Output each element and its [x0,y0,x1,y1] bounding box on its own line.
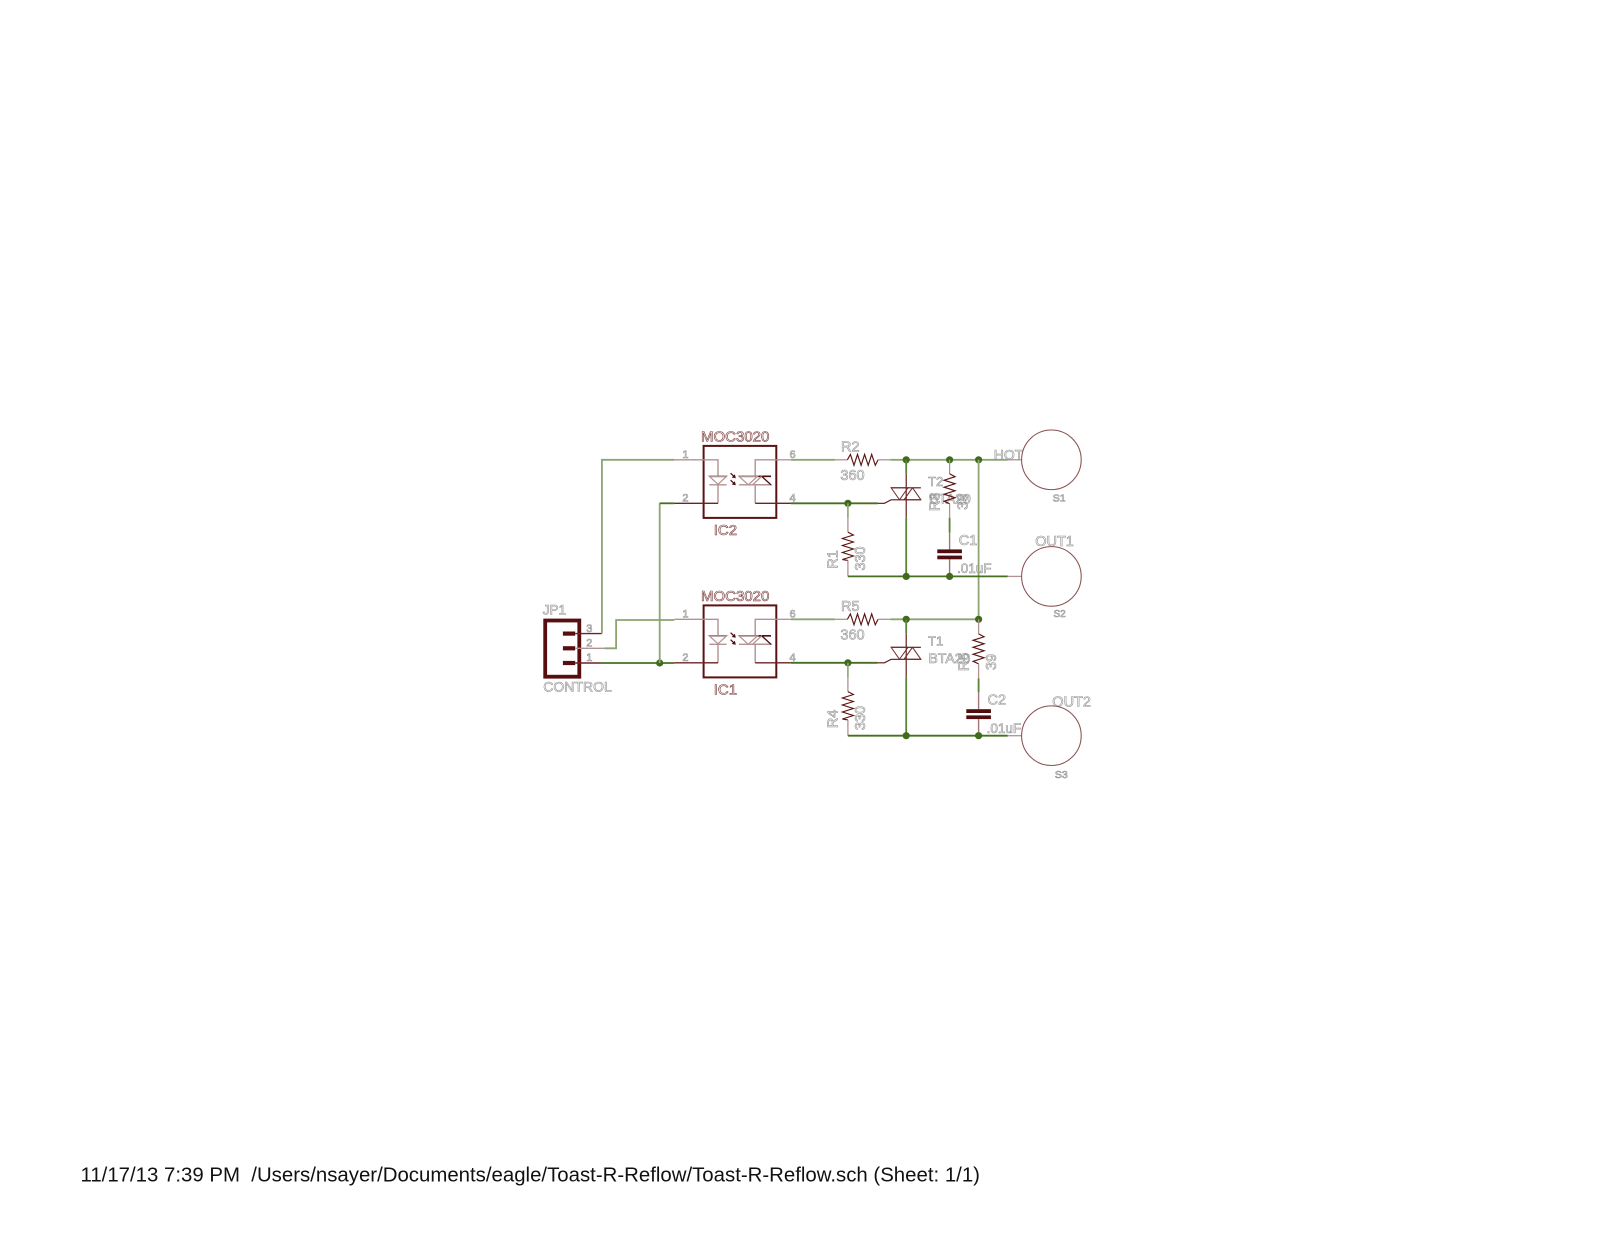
circle S1 [1022,430,1082,490]
junction node R5 net at T1 [903,616,910,623]
IC1 pin 4 lead [776,662,791,664]
svg-text:S3: S3 [1055,769,1068,781]
IC1 pin 6 lead [776,618,791,620]
wire IC1 pin4 net [791,662,878,664]
junction node HOT at vertical [975,456,982,463]
wire OUT1 net [848,575,1008,577]
IC1 pin 1 lead [674,618,703,620]
svg-text:JP1: JP1 [543,602,566,617]
resistor R2 [835,454,890,465]
svg-text:C2: C2 [988,693,1007,709]
junction node pin4 net at R1 [844,500,851,507]
op-amp IC1 optocoupler MOC3020 box [704,605,777,677]
resistor R4 vertical [842,663,853,736]
wire R6 to C2 [978,678,980,692]
JP1 pin 1 lead [575,662,602,664]
svg-text:T1: T1 [928,634,943,649]
wire IC1 pin6 to R5 [791,618,835,620]
junction node OUT1 at C1 [946,573,953,580]
resistor R1 vertical [842,503,853,576]
junction node HOT at R3 [946,456,953,463]
svg-text:MOC3020: MOC3020 [701,429,769,446]
svg-text:MOC3020: MOC3020 [701,588,769,605]
svg-text:360: 360 [840,468,864,484]
svg-text:3: 3 [586,623,592,635]
svg-text:IC2: IC2 [714,522,737,539]
svg-text:330: 330 [853,546,869,570]
IC2 pin 1 lead [674,459,703,461]
svg-text:T2: T2 [928,474,943,489]
wire R5 net horizontal [890,618,978,620]
circle S2 [1022,547,1082,607]
svg-text:S2: S2 [1054,609,1067,620]
svg-text:R3: R3 [928,493,944,512]
pin lead to S2 [1008,575,1022,577]
connector JP1 [545,621,579,677]
svg-text:1: 1 [586,652,592,664]
svg-text:R6: R6 [957,653,973,672]
op-amp IC2 optocoupler MOC3020 box [704,446,777,518]
wire R3 to C1 [949,518,951,533]
IC1 pin 2 lead [674,662,703,664]
svg-text:R2: R2 [841,440,860,456]
resistor R5 [835,614,890,625]
svg-text:39: 39 [956,494,972,510]
wire OUT2 net [848,735,1008,737]
wire JP1 pin1 to IC1 pin2 [602,662,675,664]
transistor T2 triac [878,474,921,518]
IC2 pin 2 lead [674,502,703,504]
wire IC2 pin6 to R2 [791,459,835,461]
svg-text:.01uF: .01uF [987,721,1022,736]
capacitor C2 [966,692,991,735]
IC2 pin 6 lead [776,459,791,461]
wire JP1 pin2 to IC1 pin1 [604,620,674,648]
svg-text:330: 330 [853,706,869,730]
wire JP1 pin3 to IC2 pin1 [602,460,675,634]
svg-text:2: 2 [586,638,592,650]
junction node HOT at T2 [903,456,910,463]
resistor R6 vertical [973,619,984,678]
svg-text:R5: R5 [841,599,860,615]
IC2 pin 4 lead [776,502,791,504]
svg-text:R4: R4 [825,710,841,729]
svg-text:39: 39 [984,654,1000,670]
wire T1 top stub [905,619,907,633]
JP1 pin 3 lead [575,633,602,635]
pin lead to S3 [1008,735,1022,737]
svg-text:OUT2: OUT2 [1052,694,1091,710]
junction node OUT2 at T1 [903,732,910,739]
wire HOT net horizontal [890,459,1008,461]
circle S3 [1022,706,1082,766]
pin lead to S1 [1008,459,1022,461]
wire IC2 pin4 net [791,502,878,504]
junction node JP1 pin1 net [656,659,663,666]
svg-text:OUT1: OUT1 [1035,534,1074,550]
svg-text:IC1: IC1 [714,682,737,699]
junction node OUT2 at C2 [975,732,982,739]
svg-text:11/17/13 7:39 PM /Users/nsaye: 11/17/13 7:39 PM /Users/nsayer/Documents… [81,1164,980,1186]
svg-text:.01uF: .01uF [957,561,992,576]
wire HOT to lower section vertical [978,460,980,620]
wire IC2 pin2 net vertical [659,503,661,663]
resistor R3 vertical [944,460,955,518]
svg-text:R1: R1 [825,550,841,569]
wire T1 bottom to OUT2 [905,677,907,735]
svg-text:CONTROL: CONTROL [543,679,612,695]
junction node OUT1 at T2 [903,573,910,580]
transistor T1 triac [878,633,921,677]
svg-text:C1: C1 [959,533,978,549]
JP1 pin 2 lead [575,647,604,649]
svg-text:360: 360 [840,628,864,644]
svg-text:S1: S1 [1053,493,1066,505]
capacitor C1 [937,533,962,577]
junction node R5 net at R6 [975,616,982,623]
junction node pin4 net at R4 [844,659,851,666]
wire T2 top stub [905,460,907,474]
wire T2 bottom to OUT1 [905,518,907,577]
